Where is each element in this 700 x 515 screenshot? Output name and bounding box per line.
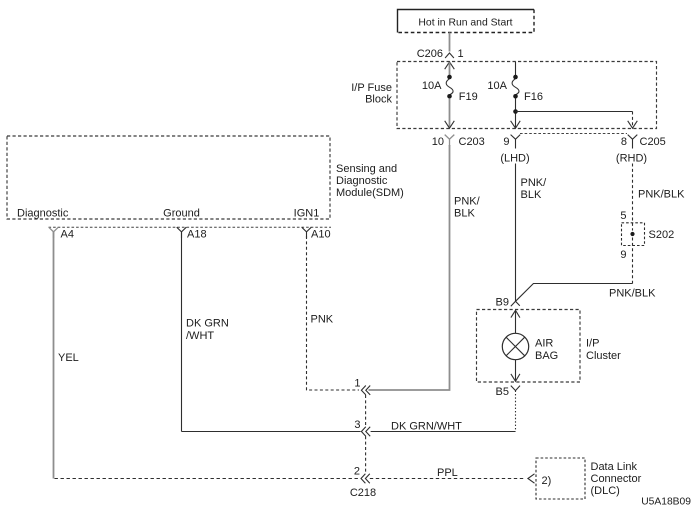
svg-text:10A: 10A <box>422 80 442 92</box>
svg-text:2: 2 <box>354 466 360 478</box>
svg-text:8: 8 <box>621 136 627 148</box>
svg-text:BLK: BLK <box>521 189 542 201</box>
svg-text:5: 5 <box>620 210 626 222</box>
svg-text:(LHD): (LHD) <box>500 153 529 165</box>
svg-text:B9: B9 <box>496 297 509 309</box>
svg-text:IGN1: IGN1 <box>294 208 320 220</box>
svg-text:10: 10 <box>432 136 444 148</box>
svg-text:I/P Fuse: I/P Fuse <box>351 82 392 94</box>
svg-text:F16: F16 <box>524 91 543 103</box>
svg-text:PNK/: PNK/ <box>521 177 548 189</box>
svg-text:3: 3 <box>354 419 360 431</box>
svg-text:Diagnostic: Diagnostic <box>17 208 69 220</box>
svg-text:S202: S202 <box>649 229 675 241</box>
svg-text:Sensing and: Sensing and <box>336 163 397 175</box>
svg-text:/WHT: /WHT <box>186 330 214 342</box>
svg-text:C218: C218 <box>350 487 376 499</box>
svg-text:C205: C205 <box>640 136 666 148</box>
svg-text:YEL: YEL <box>58 352 79 364</box>
svg-text:U5A18B09: U5A18B09 <box>641 497 691 508</box>
svg-text:AIR: AIR <box>535 338 553 350</box>
svg-text:Data Link: Data Link <box>591 461 638 473</box>
svg-text:1: 1 <box>354 378 360 390</box>
svg-text:Cluster: Cluster <box>586 350 621 362</box>
svg-text:C203: C203 <box>459 136 485 148</box>
svg-text:PNK: PNK <box>311 314 334 326</box>
svg-text:BAG: BAG <box>535 350 558 362</box>
svg-text:9: 9 <box>503 136 509 148</box>
svg-text:(DLC): (DLC) <box>591 485 620 497</box>
svg-text:1: 1 <box>458 48 464 60</box>
svg-text:2): 2) <box>542 475 552 487</box>
svg-text:DK GRN/WHT: DK GRN/WHT <box>391 421 462 433</box>
svg-text:PNK/BLK: PNK/BLK <box>609 288 656 300</box>
svg-text:A18: A18 <box>187 229 207 241</box>
svg-text:PNK/: PNK/ <box>454 196 481 208</box>
svg-text:A10: A10 <box>311 229 331 241</box>
svg-text:A4: A4 <box>61 229 74 241</box>
svg-text:PNK/BLK: PNK/BLK <box>638 189 685 201</box>
svg-text:Ground: Ground <box>163 208 200 220</box>
svg-text:Module(SDM): Module(SDM) <box>336 187 404 199</box>
svg-text:Connector: Connector <box>591 473 642 485</box>
svg-text:DK GRN: DK GRN <box>186 318 229 330</box>
svg-text:(RHD): (RHD) <box>616 153 647 165</box>
svg-text:C206: C206 <box>417 48 443 60</box>
svg-text:9: 9 <box>620 249 626 261</box>
svg-text:I/P: I/P <box>586 338 599 350</box>
svg-text:PPL: PPL <box>437 467 458 479</box>
svg-text:BLK: BLK <box>454 208 475 220</box>
svg-text:Diagnostic: Diagnostic <box>336 175 388 187</box>
svg-text:Block: Block <box>365 94 392 106</box>
svg-text:F19: F19 <box>459 91 478 103</box>
svg-text:Hot in Run and Start: Hot in Run and Start <box>418 18 512 29</box>
svg-text:10A: 10A <box>487 80 507 92</box>
svg-text:B5: B5 <box>496 386 509 398</box>
